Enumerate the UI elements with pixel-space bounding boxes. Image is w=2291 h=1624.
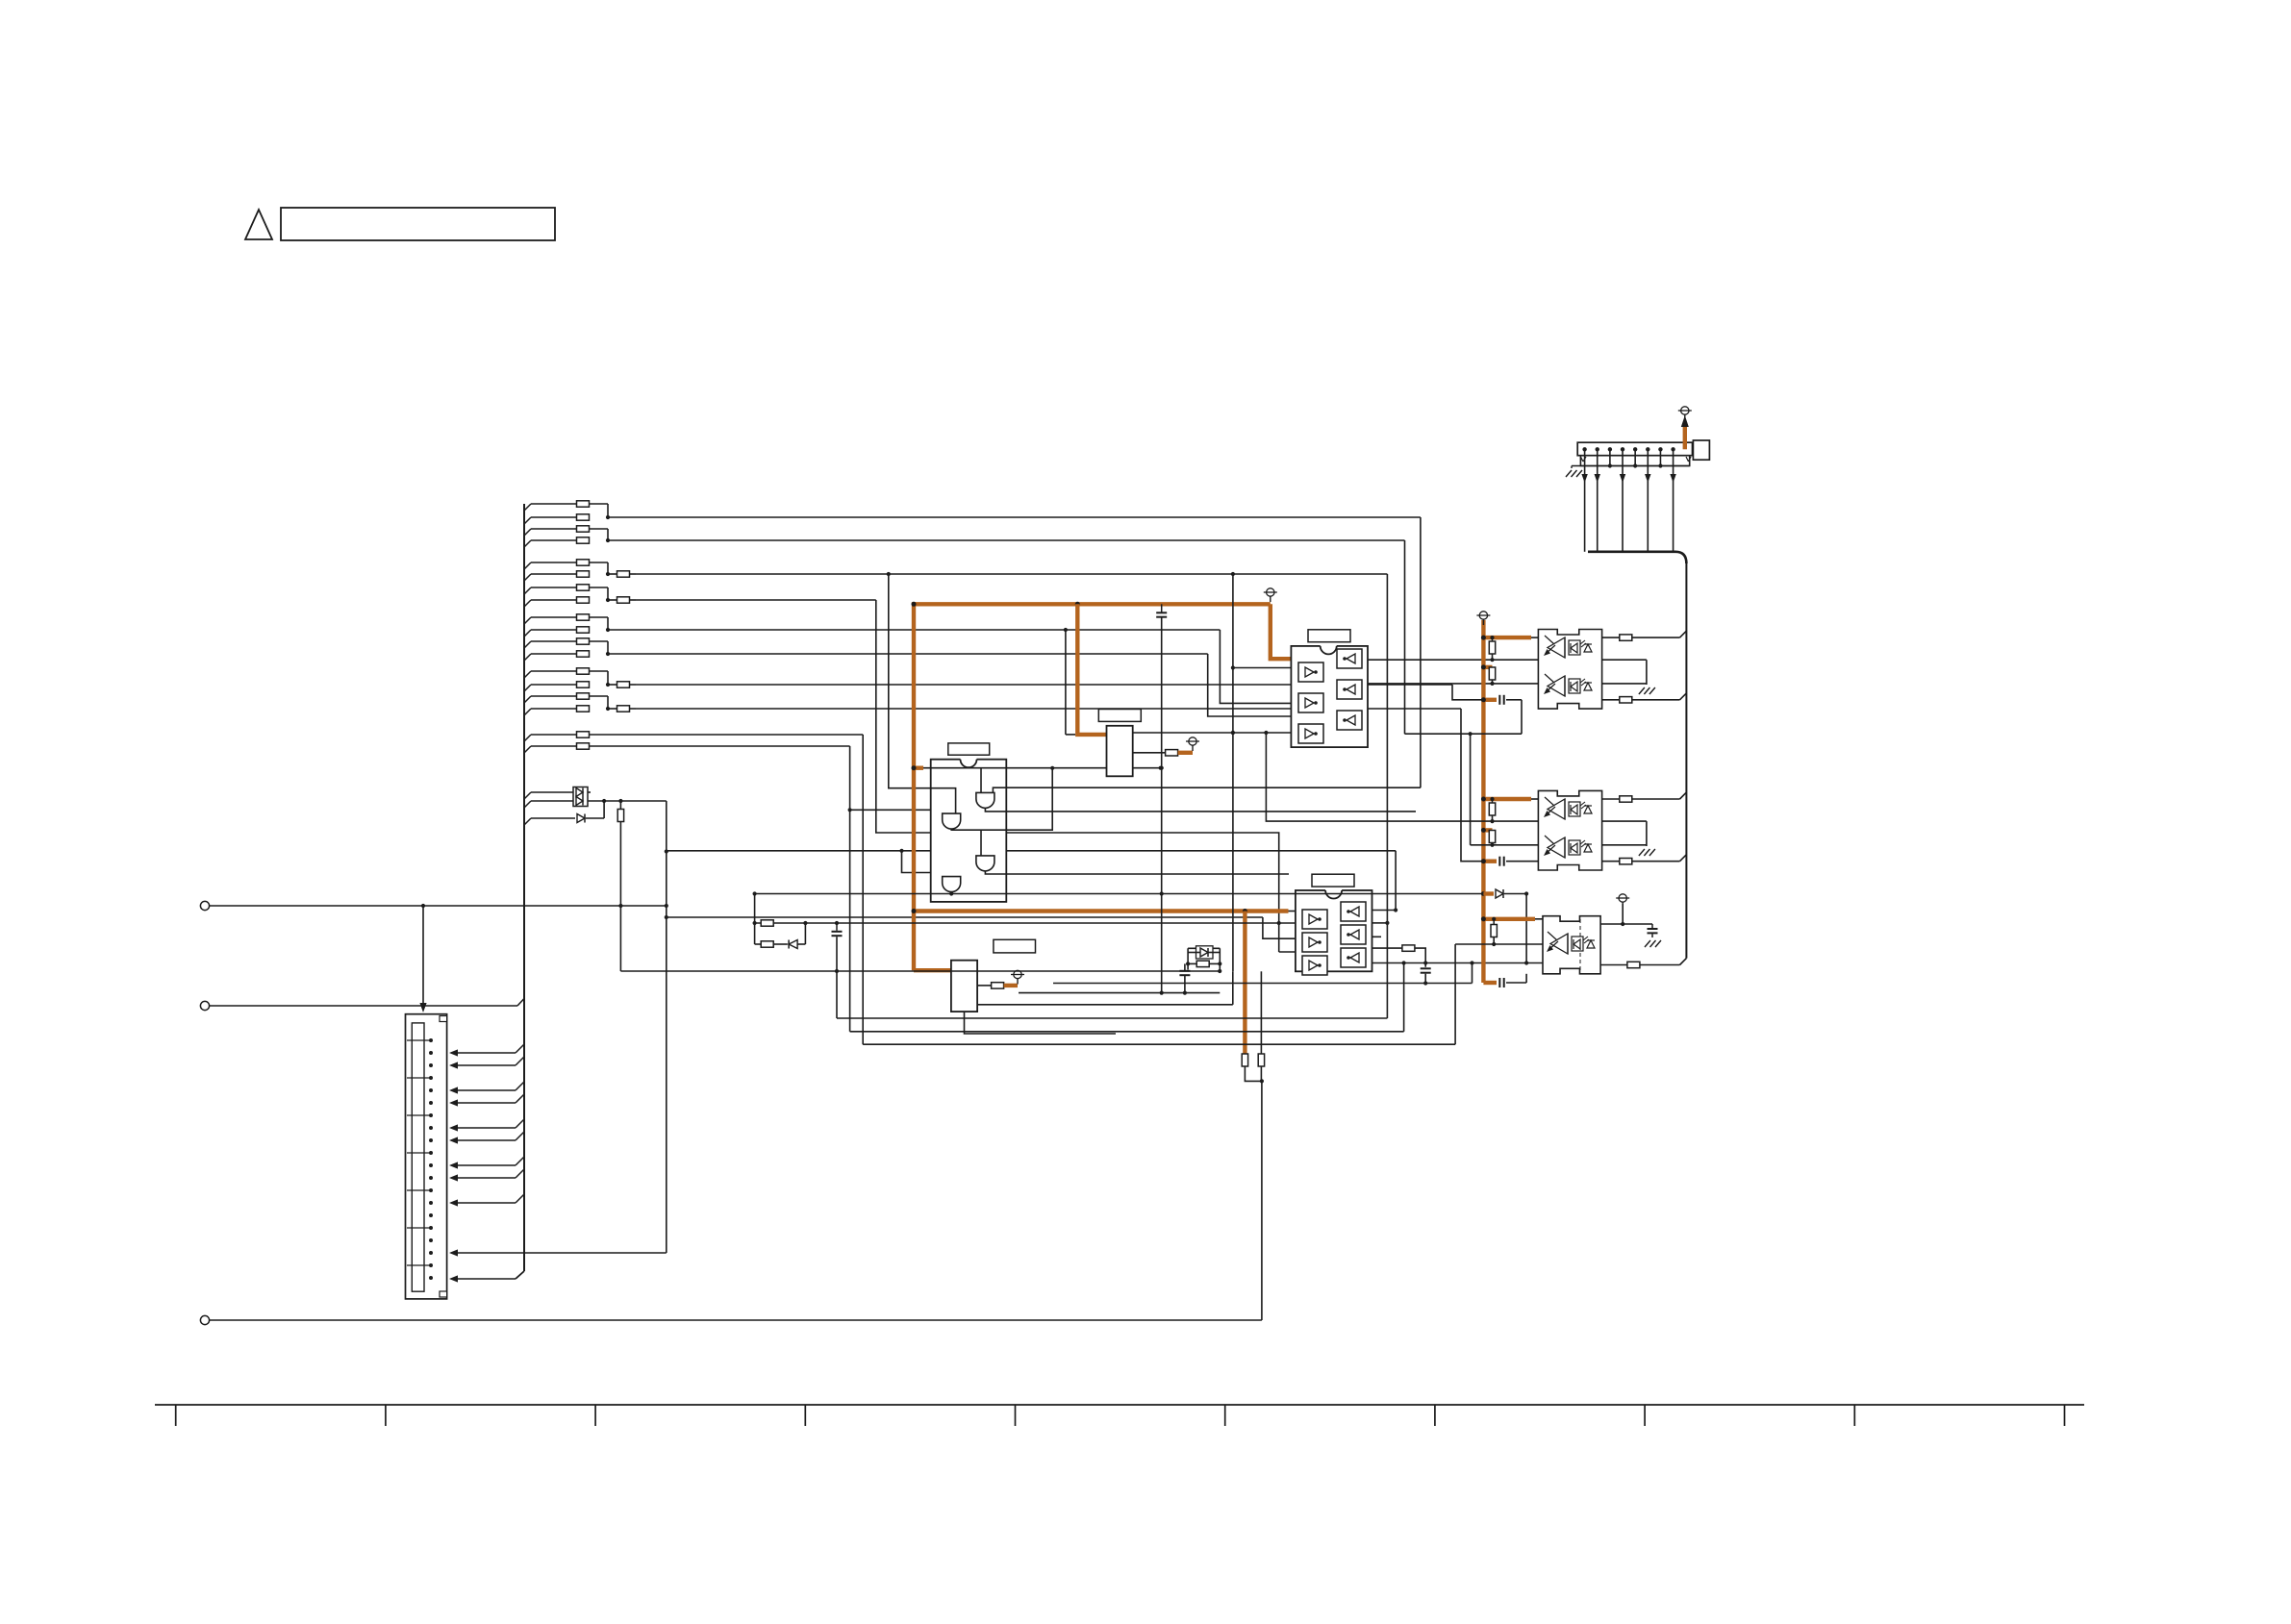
orange node o5 [1481, 828, 1486, 833]
wire R-pc1a to bus [1632, 631, 1687, 637]
resistor R-pc3 [1627, 962, 1640, 967]
orange node o4 [1481, 797, 1486, 802]
diode DB [1200, 948, 1208, 957]
capacitor C-top stem [1161, 604, 1163, 612]
wire U3 out1 to opto1 [1368, 659, 1538, 661]
IC U1 notch [961, 759, 977, 768]
wire opto1 pin1 [1531, 637, 1538, 638]
diode DB box [1196, 946, 1214, 959]
orange node o6 [1481, 859, 1486, 863]
terminal P3 circle [200, 1315, 209, 1324]
wire y885 net [667, 851, 1396, 911]
orange stub u4 [1004, 984, 1018, 987]
resistor R-u4 [992, 983, 1004, 988]
row resistors first column [577, 501, 590, 749]
diode D2 [577, 814, 585, 823]
wire R-sense2 down [1260, 1066, 1262, 1081]
resistor R-pc2b [1620, 859, 1632, 864]
connector CN2 pin dots [1582, 447, 1674, 451]
wire R-pc2b to bus [1632, 855, 1687, 862]
resistor R-sense1 [1242, 1054, 1247, 1066]
wire opto2 pin1 [1531, 798, 1538, 800]
node y1032 junction [1183, 991, 1187, 995]
wire row562 drop [1404, 540, 1406, 734]
wire D2 link vertical [586, 801, 604, 818]
resistor RA2 [761, 941, 773, 947]
AND gate G3 [976, 856, 994, 871]
optocoupler PC1 cell2 [1544, 674, 1592, 696]
resistor R-opt3 [1491, 919, 1497, 944]
U5 buffer cell R2 [1341, 925, 1366, 944]
orange branch to IC U3 [1271, 604, 1292, 659]
orange node C [912, 765, 917, 770]
U5 buffer cell R3 [1341, 948, 1366, 967]
bus row stub wires with chamfers [524, 504, 577, 753]
resistor R-opt1a [1489, 637, 1495, 660]
node y1010 junction [1218, 969, 1221, 973]
flag drv1 [1186, 737, 1199, 751]
resistor R-pc1b [1620, 697, 1632, 703]
wire row851 stub [524, 818, 575, 825]
warning triangle symbol [245, 210, 272, 239]
wire RA2 to diode [773, 943, 788, 945]
PC3 dashed divider [1579, 919, 1581, 971]
connector CN2 Y marks [1580, 457, 1691, 462]
wire clusterA bottom row [755, 943, 762, 945]
orange stub cap2 [1483, 860, 1497, 863]
wire row712 long [636, 684, 1452, 686]
resistor R-pc2a [1620, 796, 1632, 802]
node rop2b [1490, 843, 1494, 847]
bus bottom chamfer to pin20 [449, 1271, 524, 1283]
orange arrow wire [1683, 424, 1687, 449]
vertical net V692 [666, 801, 667, 1253]
right bus vertical [1685, 562, 1687, 959]
flag orange bus top [1476, 612, 1490, 625]
wire row624 drop and run [876, 600, 1279, 923]
wire y954 long [667, 916, 1263, 918]
IC U5 outline [1296, 890, 1372, 971]
cluster B top row [1188, 947, 1220, 949]
node y1022 junction [1423, 981, 1427, 985]
node Dbus out [1524, 891, 1528, 895]
wire PC3 out [1600, 964, 1627, 966]
wire PC3 top right [1600, 904, 1652, 924]
wire R986 corner [1415, 948, 1425, 967]
node P1-J2 [618, 904, 622, 908]
optocoupler PC1 cell1 [1544, 636, 1592, 658]
wire RB row [1188, 962, 1220, 964]
vertical from U5 to R-sense2 [1260, 971, 1262, 1054]
connector CN1 top tab [440, 1016, 447, 1022]
orange node B [912, 602, 917, 607]
wire row680 long [608, 653, 1208, 655]
wire U5 out 974 [1372, 936, 1382, 937]
capacitor C-opt3 [1499, 978, 1503, 987]
U5 buffer cell L3 [1302, 956, 1327, 975]
U3 buffer cell L3 [1298, 724, 1323, 743]
bottom zone ruler line with ticks [155, 1405, 2084, 1426]
IC U5 label box [1312, 874, 1354, 887]
wire row824 stub [524, 792, 575, 799]
node x1281 junctions [1231, 731, 1235, 735]
node y885 junction [899, 849, 903, 853]
cluster A link vertical [804, 923, 806, 944]
AND gate G2 [943, 813, 961, 829]
ground C-pc3 [1645, 940, 1661, 947]
wire cap1 out [1405, 700, 1523, 734]
IC U1 outline [931, 760, 1007, 902]
resistor R-drv1 [1166, 750, 1178, 756]
box U4 label box [994, 939, 1036, 953]
wire PC1 out2 [1602, 699, 1620, 701]
node x1207 junctions [1160, 766, 1164, 995]
connector CN2 lip [1580, 456, 1689, 466]
wire U3 pin row 694 [1233, 667, 1292, 669]
diode DA [789, 940, 797, 949]
node U2drv out junction [1231, 731, 1235, 735]
resistor R-opt2b [1489, 831, 1495, 845]
cluster A left vertical [754, 894, 756, 945]
wire D1 output [588, 792, 604, 801]
capacitor C-pc3 [1648, 924, 1658, 937]
node cap1 node [1469, 732, 1473, 736]
AND gate G1 [976, 792, 994, 808]
wire V692 to connector pin [456, 1252, 667, 1254]
wire U5 out 1001 long [1372, 962, 1544, 964]
wire DB row [1188, 952, 1220, 954]
vertical net x1281 [1232, 574, 1234, 971]
wire G1 output [985, 808, 1416, 812]
orange node A [1075, 602, 1080, 607]
capacitor C-1482 [1421, 968, 1431, 983]
orange wire into box U4 [914, 968, 951, 972]
optocoupler PC3 cell [1547, 932, 1595, 954]
node y1001 junctions [1423, 961, 1528, 964]
capacitor C-opt2 [1499, 857, 1503, 866]
wire y960 long [755, 922, 1296, 924]
left vertical bus [523, 504, 525, 1271]
top connector feed line [1588, 552, 1686, 563]
wire y885 drop to G3 [989, 851, 991, 856]
orange wire top horizontal [914, 602, 1271, 606]
resistor R-opt2a [1489, 799, 1495, 821]
wire P3 horizontal [210, 1319, 1262, 1321]
wire x1459 drop [1403, 963, 1405, 1032]
node clusterA top [753, 891, 757, 925]
node U3 pin row 694 junction [1231, 665, 1235, 669]
wire opto2 pin1 staircase [1264, 731, 1538, 821]
wire sense net to P3 [1261, 1081, 1263, 1320]
wire U1 gate2 input staircase [889, 574, 956, 813]
wire y954 drop to U2 pin [1263, 917, 1296, 938]
orange wire horizontal y947 [914, 909, 1289, 912]
wire G3 left input [980, 830, 982, 856]
wire opto2 pin2 left [1471, 844, 1539, 846]
node CA bottom [835, 969, 839, 973]
ground PC1 [1639, 687, 1655, 694]
orange node o3 [1481, 697, 1486, 702]
wire U1 pin1 row [922, 767, 1161, 769]
orange arrow head [1681, 415, 1689, 427]
wire row655 branch to U2drv [1064, 628, 1075, 735]
wire U5 out 960 [1372, 922, 1388, 924]
wire row833 stub [524, 801, 575, 808]
flag u4 [1011, 970, 1024, 984]
connector CN1 pin dots [429, 1038, 433, 1280]
wire row624 long [636, 599, 876, 601]
orange stub U1 pin1 [914, 766, 923, 770]
warning note box [281, 208, 555, 240]
wire y1044 rise to U2 [1232, 971, 1234, 1005]
IC U5 notch [1325, 889, 1342, 899]
orange stub diode [1483, 891, 1494, 895]
wire U3 out2 to opto1 [1368, 683, 1538, 685]
node U5out946 node [1394, 908, 1397, 912]
wire row538 drop [1420, 517, 1422, 787]
wire DA to vert [797, 943, 805, 945]
IC U3 notch [1321, 645, 1337, 655]
ground PC2 [1639, 849, 1655, 856]
node RB nodes [1186, 962, 1221, 965]
node rop2a [1490, 797, 1494, 823]
orange node o1 [1481, 636, 1486, 640]
wire R-pc1b to bus [1632, 693, 1687, 700]
node RA junctions [803, 921, 1280, 925]
orange node o8 [1481, 916, 1486, 921]
wire row764 drop [862, 735, 864, 1044]
wire row562 long [608, 539, 1405, 541]
vertical net x1207 [1161, 618, 1163, 993]
wire x1513 rise [1454, 944, 1456, 1044]
wire row776 [590, 745, 850, 747]
wire D node to vert [620, 800, 666, 802]
orange node E [1243, 909, 1247, 913]
orange stub opto2 pin1 [1483, 797, 1531, 801]
resistor R-986 [1402, 945, 1415, 951]
capacitor C-top [1156, 612, 1167, 616]
flag CN2 [1678, 407, 1692, 420]
U3 buffer cell L2 [1298, 693, 1323, 712]
terminal P1 circle [200, 901, 209, 910]
node D-J1 [602, 799, 606, 803]
wire y1022 long [1053, 983, 1473, 985]
resistor R-pc1a [1620, 635, 1632, 640]
IC U3 outline [1291, 646, 1368, 747]
diode D-bus [1496, 889, 1503, 898]
wire y1010 long [620, 970, 1220, 972]
wire PC2 mid pins [1602, 821, 1647, 846]
orange wire drop x1294 [1243, 912, 1246, 1055]
connector CN2 ground bus [1572, 465, 1690, 467]
wire U2drv lower out [1133, 752, 1166, 754]
wire R-pc3 to bus [1640, 959, 1687, 965]
orange stub cap3 [1483, 981, 1497, 985]
resistor RB [1196, 961, 1209, 966]
node D-J2 [618, 799, 622, 803]
wire x1530 link [1472, 963, 1473, 984]
U3 buffer cell R2 [1337, 680, 1362, 699]
node G4 out node [949, 891, 953, 895]
connector CN2 side square [1693, 440, 1709, 460]
connector CN2 ground stem [1571, 466, 1573, 469]
optocoupler PC2 cell1 [1544, 797, 1592, 819]
node PC3 node [1621, 922, 1624, 926]
connector CN2 pin wires with arrows [1581, 449, 1675, 552]
orange stub drv1 [1178, 751, 1193, 755]
flag on orange x1320 [1264, 588, 1277, 602]
resistor RA1 [761, 920, 773, 926]
arrow into connector pin11 [449, 1249, 458, 1256]
optocoupler PC2 package [1538, 790, 1601, 870]
orange node D [912, 909, 917, 913]
wire row764 [590, 734, 864, 736]
wire PC1 out1 [1602, 637, 1620, 638]
row pair link wires [590, 504, 611, 711]
orange stub opto3 pin1 [1483, 917, 1535, 921]
wire PC2 out1 [1602, 798, 1620, 800]
wire G4 output to y929 [950, 892, 952, 894]
node P1-J3 [665, 904, 668, 908]
optocoupler PC2 cell2 [1544, 836, 1592, 858]
connector CN1 inner [412, 1023, 424, 1291]
IC U3 label box [1308, 630, 1350, 642]
wire opto3 pin2 row [1455, 943, 1543, 945]
wire PC1 mid pins [1602, 660, 1647, 685]
connector CN2 body [1577, 442, 1692, 456]
U3 buffer cell R3 [1337, 711, 1362, 730]
wire orange end into U2 left [1289, 911, 1296, 912]
wire row776 drop [849, 746, 851, 1032]
wire row538 long [608, 516, 1421, 518]
box U2drv label box [1098, 710, 1141, 722]
box U2drv [1107, 726, 1133, 777]
IC U1 label box [948, 743, 990, 755]
node rop3 [1492, 917, 1496, 946]
wire y1032 long [1019, 992, 1220, 994]
dual diode D1 box [573, 787, 588, 807]
arrow into CN1 top [419, 1003, 426, 1012]
orange node o7 [1481, 891, 1486, 896]
wire row597 drop [1386, 574, 1388, 1018]
connector CN1 bottom tab [440, 1291, 447, 1297]
node rop1a [1490, 636, 1494, 662]
U3 buffer cell L1 [1298, 662, 1323, 682]
wire R-pc2a to bus [1632, 792, 1687, 799]
wire y1086 long [863, 1043, 1455, 1045]
node rop1b [1490, 682, 1494, 686]
wire U4 out1 [977, 985, 992, 987]
wire Dbus out [1504, 894, 1526, 963]
cluster B verticals [1188, 948, 1220, 971]
U5 buffer cell L2 [1302, 933, 1327, 952]
capacitor CA [832, 923, 843, 1018]
ground CN2 [1566, 470, 1582, 477]
node row597 junctions [887, 572, 1235, 576]
wire P1 horizontal [210, 905, 667, 907]
wire row712 jog to cap row [1452, 685, 1497, 700]
wire G2 output loop [951, 766, 1054, 831]
optocoupler PC3 package [1543, 916, 1600, 974]
wire P2 horizontal to bus [210, 999, 524, 1007]
wire row737 long [636, 708, 1461, 710]
wire y842 to U1 gate [848, 808, 947, 813]
node V692 junctions [665, 849, 668, 919]
orange wire vertical main [912, 602, 916, 970]
wire R-sense join [1245, 1066, 1262, 1081]
wire row655 long [608, 629, 1220, 631]
wire U5 out 986 [1372, 947, 1402, 949]
capacitor C-opt1 [1499, 695, 1503, 705]
node P1-J1 [421, 904, 425, 908]
row resistors second column [608, 571, 636, 712]
resistor R-sense2 [1258, 1054, 1264, 1066]
connector CN1 outline [406, 1014, 447, 1299]
U3 buffer cell R1 [1337, 649, 1362, 668]
wire row680 staircase to U3 [1208, 654, 1292, 716]
wire D node to R col [604, 800, 620, 802]
resistor R-vert left [617, 801, 623, 971]
wire y885 staircase to G4 [902, 851, 947, 877]
wire y1072 long [850, 1031, 1404, 1033]
wire U5 pin990 stub [1279, 923, 1296, 952]
connector CN1 input wires from bus [449, 1044, 524, 1207]
wire U4 out2 long y1044 [977, 1004, 1233, 1006]
wire U5 out 946 [1372, 910, 1397, 912]
wire opto3 pin1 [1535, 918, 1543, 920]
wire row655 staircase to U3 [1220, 630, 1291, 703]
resistor R-opt1b [1489, 667, 1495, 684]
AND gate G4 [943, 877, 961, 892]
node x1459 top [1402, 961, 1406, 964]
terminal P2 circle [200, 1001, 209, 1010]
wire U4 bottom pin [965, 1012, 1117, 1034]
wire U2drv out to U3 pin [1133, 732, 1292, 734]
U5 buffer cell L1 [1302, 910, 1327, 929]
wire cap2 out [1506, 861, 1538, 862]
U5 buffer cell R1 [1341, 902, 1366, 921]
wire row597 long [636, 573, 1387, 575]
orange node o2 [1481, 664, 1486, 669]
connector CN1 left pin ticks [407, 1040, 431, 1265]
capacitor CB [1179, 963, 1190, 992]
optocoupler PC1 package [1538, 630, 1601, 710]
node row597drop junction [1385, 921, 1389, 925]
wire G1 left input drop [980, 768, 982, 793]
wire x1528 drop [1470, 734, 1472, 845]
node U1 pin1 junction [1159, 766, 1163, 770]
flag PC3 [1616, 894, 1629, 908]
orange stub res1 [1483, 665, 1492, 669]
wire G3 output [985, 871, 1289, 875]
node R-sense join [1260, 1079, 1264, 1083]
box U4 [951, 961, 977, 1012]
wire cap3 out [1506, 974, 1526, 983]
wire PC2 out2 [1602, 861, 1620, 862]
orange stub opto1 pin1 [1483, 636, 1531, 639]
orange right bus vertical [1481, 620, 1485, 983]
orange stub cap1 [1483, 698, 1497, 702]
orange branch to box U2drv [1077, 604, 1106, 735]
wire row737 jog to cap row [1461, 709, 1497, 862]
wire y929 long [755, 893, 1484, 895]
wire y1060 long [837, 1017, 1387, 1019]
wire G1 right input line [993, 787, 1421, 792]
orange stub res2 [1483, 828, 1492, 832]
wire P1 drop to CN1 pin1 [422, 906, 424, 1010]
